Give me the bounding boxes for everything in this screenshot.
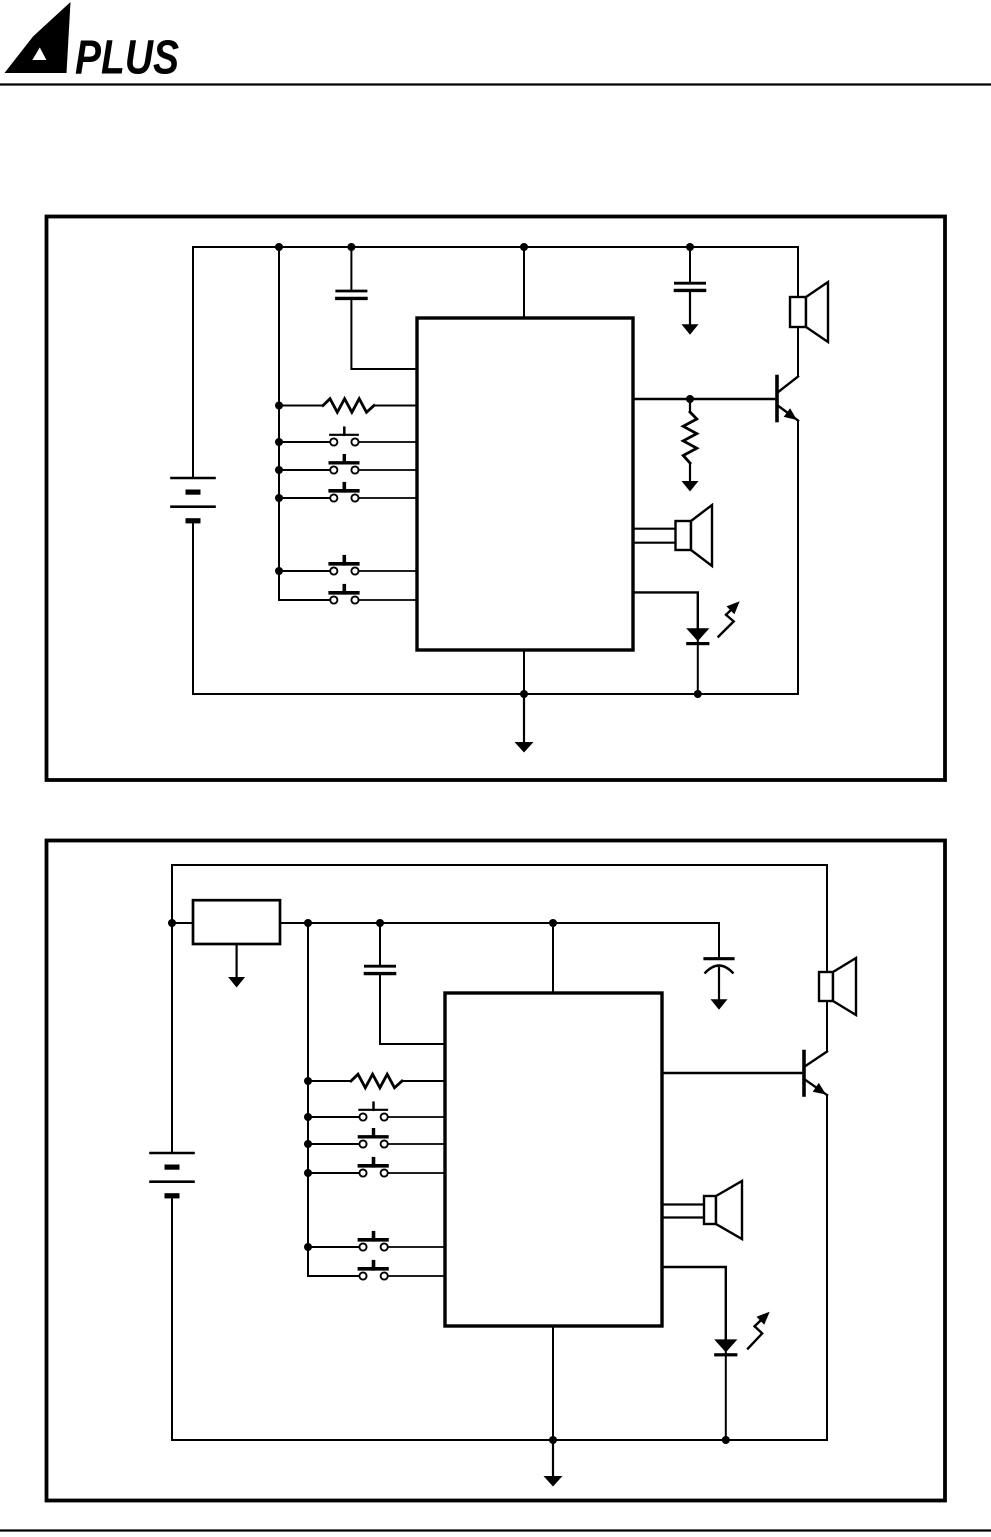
speaker SP4 wires [662,1203,704,1205]
wire VDD rail circuit 2 [280,922,719,924]
push-button switch SW10 [308,1275,359,1277]
node top rail / C2 junction [686,243,694,251]
capacitor C3 [379,923,381,965]
resistor R1 (oscillator) [279,405,323,407]
node bus/R3 [304,1077,312,1085]
ground below regulator U3 [236,944,238,978]
node bus/SW9 [304,1243,312,1251]
ground symbol circuit 2 [552,1440,554,1477]
node top rail / key bus junction [275,243,283,251]
node bus/SW7 [304,1140,312,1148]
wire key bus circuit 1 [279,247,330,600]
node bottom rail / D2 [722,1436,730,1444]
node bottom rail / D1 [694,690,702,698]
wire Q1 emitter to bottom rail [797,421,799,695]
node bus/SW2 [275,466,283,474]
speaker SP1 [790,297,806,327]
push-button switch SW6 [308,1116,359,1118]
capacitor C2 [689,247,691,282]
wire U2 VDD pin [552,923,554,993]
capacitor C4 (electrolytic) [718,923,720,957]
node bus/SW3 [275,494,283,502]
IC U2 [445,993,662,1326]
wire U1 to LED D1 [633,592,698,628]
wire speaker SP3 top feed [826,865,828,972]
LED D2 [725,1338,727,1353]
wire U2 to LED D2 [662,1267,726,1339]
transistor Q1 [775,377,779,421]
push-button switch SW1 [279,441,330,443]
capacitor C1 [350,247,352,290]
node bottom rail / U1 GND [520,690,528,698]
wire U1 GND pin [523,650,525,694]
node VDD rail / C3 junction [376,919,384,927]
node top rail / U1 VDD junction [520,243,528,251]
battery BT1 [172,477,215,480]
voltage regulator U3 [193,900,280,944]
transistor Q2 [802,1052,806,1096]
speaker SP3 [819,972,833,1001]
speaker SP4 [704,1196,716,1224]
node VDD rail / U2 VDD junction [549,919,557,927]
ground below C4 [711,999,728,1010]
node battery / regulator input [168,919,176,927]
push-button switch SW5 [279,599,330,601]
Aplus logo triangle A [5,2,71,73]
node bus/R1 [275,402,283,410]
node top rail / C1 junction [347,243,355,251]
node bus/SW6 [304,1113,312,1121]
wire U2 GND pin [552,1326,554,1440]
wire U1 VDD pin [523,247,525,318]
wire speaker SP1 top feed [797,247,799,297]
node bottom rail / U2 GND [549,1436,557,1444]
node VDD rail / key bus junction [304,919,312,927]
wire SP1 to Q1 collector [797,327,799,377]
wire U2 output to Q2 base [662,1072,804,1074]
resistor R2 (base bleed) [689,399,691,412]
wire key bus circuit 2 [308,923,359,1276]
node bus/SW1 [275,438,283,446]
node base/R2 junction [686,395,694,403]
node bus/SW8 [304,1169,312,1177]
node bus/SW4 [275,567,283,575]
speaker SP2 wires [633,528,676,530]
wire regulator input [172,922,193,924]
ground below R2 [682,481,699,492]
LED D1 [697,627,699,642]
push-button switch SW7 [308,1143,359,1145]
IC U1 [417,318,633,650]
wire SP3 to Q2 collector [826,1001,828,1052]
resistor R3 (oscillator) [308,1080,351,1082]
wire VDD top rail circuit 1 [193,247,798,477]
battery BT2 [151,1152,194,1155]
wire outer positive rail circuit 2 [172,865,827,1152]
ground symbol circuit 1 [523,694,525,743]
wire U1 output to Q1 base [633,398,777,400]
LED D1 emission arrow [719,615,734,637]
push-button switch SW4 [279,570,330,572]
wire GND bottom rail circuit 2 [172,1199,827,1440]
push-button switch SW2 [279,469,330,471]
svg-text:PLUS: PLUS [75,32,179,85]
wire GND bottom rail circuit 1 [193,524,798,694]
LED D2 emission arrow [748,1326,762,1348]
ground below C2 [682,324,699,335]
push-button switch SW3 [279,497,330,499]
wire Q2 emitter to bottom rail [826,1095,828,1440]
speaker SP2 [676,521,692,550]
push-button switch SW9 [308,1246,359,1248]
push-button switch SW8 [308,1172,359,1174]
